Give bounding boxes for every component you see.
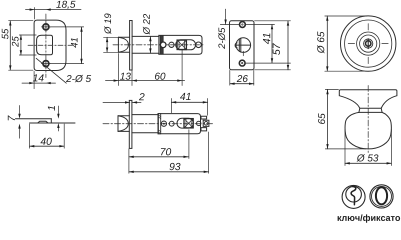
- rose flange: [339, 90, 397, 109]
- dim 55 left: [9, 21, 11, 70]
- fixator inner circle: [372, 186, 392, 206]
- oval slot: [177, 118, 193, 128]
- screw hole top: [43, 24, 49, 30]
- dim 70: [128, 149, 130, 159]
- faceplate edge-on: [130, 21, 133, 71]
- dim 41 right of view A: [81, 27, 83, 64]
- leader 2-Ø5: [36, 58, 66, 83]
- dim 18,5 top: [26, 9, 82, 11]
- text 41: [71, 38, 78, 48]
- dim 26 strike: [230, 70, 254, 85]
- hole circle 1: [160, 42, 166, 48]
- dims 13 / 60: [106, 80, 185, 82]
- dim 93: [129, 132, 209, 173]
- text 18,5: [56, 1, 75, 9]
- fixator icon outer circle: [370, 185, 393, 208]
- screw hole bottom: [239, 60, 245, 66]
- flange top line: [16, 118, 52, 120]
- text 25: [12, 36, 19, 47]
- text 55: [2, 29, 9, 39]
- dim Ø65: [325, 16, 367, 71]
- dim 14 bottom: [22, 82, 56, 84]
- latch hole circle: [236, 38, 251, 53]
- faceplate edge-on: [129, 100, 132, 148]
- dim 65: [325, 89, 366, 148]
- knob ring 4: [360, 35, 377, 52]
- dim 25: [20, 35, 22, 55]
- keyhole circle: [364, 39, 373, 48]
- key head circle: [346, 186, 362, 202]
- dim Ø19: [104, 37, 118, 52]
- key symbol: [351, 187, 356, 205]
- screw hole top: [240, 22, 246, 28]
- horizontal centerline: [28, 44, 73, 46]
- body tube: [132, 114, 158, 134]
- caption: [338, 214, 401, 222]
- hole circle 2: [169, 42, 174, 47]
- knob outer circle: [341, 16, 396, 71]
- bump: [38, 121, 49, 123]
- screw hole bottom: [43, 61, 49, 67]
- latch bolt: [118, 37, 129, 52]
- dim Ø53: [345, 130, 391, 166]
- knob ring 2: [345, 20, 392, 67]
- hole circle 1: [161, 121, 166, 126]
- knob ring 3: [357, 32, 380, 55]
- hole circle 3: [197, 121, 201, 125]
- hole circle 2: [169, 121, 174, 126]
- base line: [30, 122, 76, 124]
- spindle square (70mm position): [184, 119, 193, 128]
- bolt bevel arc: [118, 116, 128, 132]
- dim 7: [19, 106, 21, 139]
- step: [50, 119, 52, 123]
- keyhole: [366, 41, 371, 46]
- dim Ø22: [149, 36, 151, 53]
- centerline ticks: [348, 24, 388, 64]
- retaining clip: [201, 116, 209, 131]
- square spindle hole: [37, 35, 53, 54]
- mounting flange: [158, 114, 160, 134]
- vertical centerline: [45, 14, 47, 78]
- dim 40: [30, 124, 65, 148]
- spindle square (60mm position): [177, 40, 186, 49]
- dim 41 strike: [246, 25, 291, 64]
- leader from square to dim line: [181, 50, 183, 86]
- key icon outer circle: [342, 185, 365, 208]
- thumbturn oval: [376, 187, 387, 204]
- neck: [359, 108, 382, 112]
- bracket outline: [158, 114, 201, 134]
- knob sphere: [345, 112, 391, 148]
- left bump: [235, 43, 237, 48]
- faceplate plate outline: [34, 20, 66, 70]
- bolt bevel arc: [118, 37, 128, 52]
- mounting flange dark: [160, 35, 163, 54]
- strike plate outline: [230, 21, 255, 70]
- hole circle 3: [196, 42, 202, 48]
- dim 57 strike: [255, 21, 291, 70]
- dim 1: [57, 106, 59, 131]
- bracket outline: [159, 35, 202, 54]
- centerline: [103, 123, 213, 125]
- text 2-Ø5: [66, 75, 91, 82]
- centerline: [113, 44, 205, 46]
- body tube: [132, 35, 159, 54]
- latch bolt: [118, 116, 129, 132]
- leader 2-Ø5: [225, 9, 227, 24]
- latch hole chords: [236, 38, 251, 52]
- centerline: [367, 86, 369, 154]
- text 14: [33, 74, 44, 81]
- leader from square down: [188, 130, 190, 159]
- dim 2: [103, 101, 141, 103]
- oval slot: [176, 40, 196, 50]
- dim 41 bottom view: [171, 99, 207, 116]
